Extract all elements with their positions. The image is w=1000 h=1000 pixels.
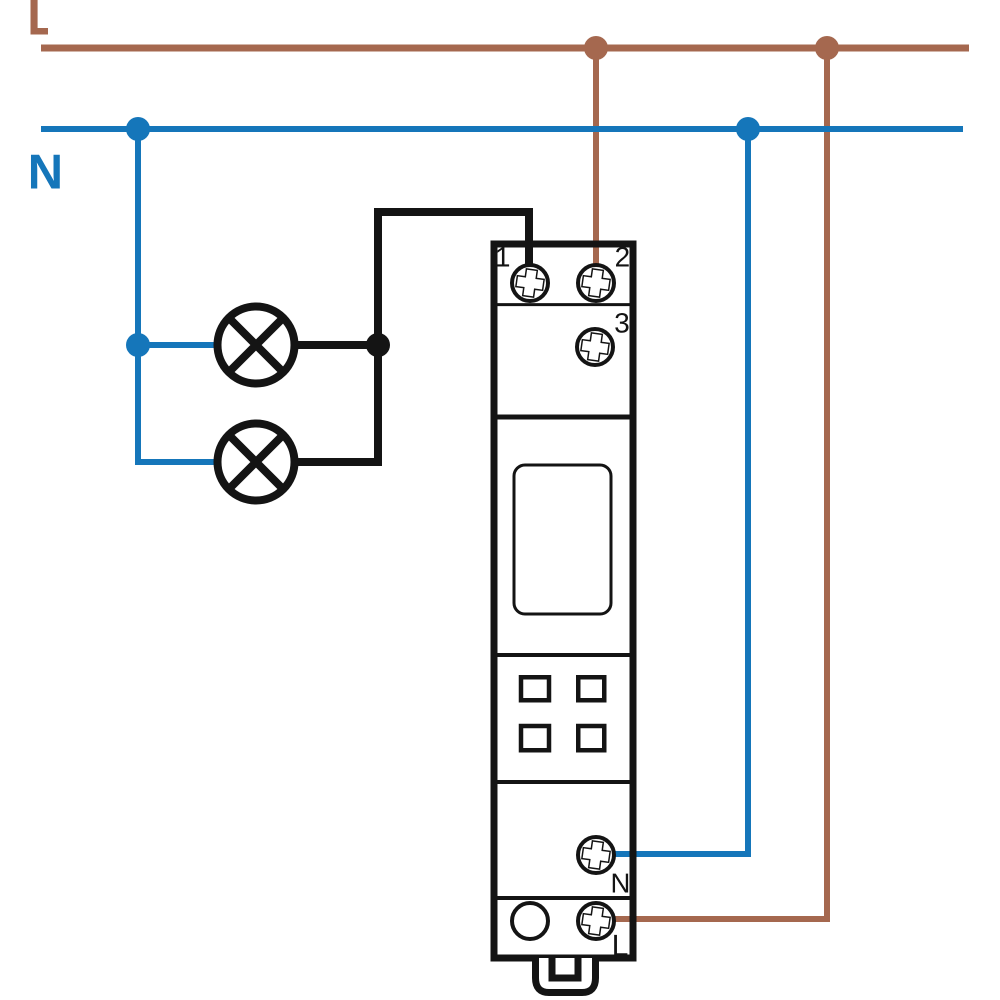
terminal screw 2 [578,265,614,301]
terminal screw 3 [577,329,613,365]
label L (phase) [31,0,49,35]
wire blue from N bus down to lamps [138,129,218,462]
pin label 2 [616,247,629,267]
wire blue from N bus down to terminal N [613,129,748,854]
pin label 3 [615,313,628,333]
terminal screw L [578,903,614,939]
node L drop to terminal L (brown junction dot) [815,36,839,60]
timer module body fill [491,241,637,962]
button bottom-right [578,726,604,750]
node lamp junction (black dot) [366,333,390,357]
button top-left [521,677,549,700]
button bottom-left [521,726,549,750]
display window [514,465,611,614]
terminal screw N [578,837,614,873]
blank hole next to terminal L [512,903,548,939]
button top-right [578,677,604,700]
terminal screw 1 [512,265,548,301]
node N bus left (blue junction dot) [126,117,150,141]
module section divider under display [491,653,636,657]
wire blue to lamp E1 [138,342,218,348]
wire brown drop from L bus to terminal 2 [593,48,599,266]
wire N bus (blue neutral line) [41,126,963,132]
wire black from lamp E1 to junction [294,341,378,349]
pin label N [613,874,628,893]
wire brown from L bus down and left to terminal L [613,48,827,919]
pin label L [614,935,627,956]
timer module body outline [494,244,633,958]
label N (neutral) [31,155,60,189]
pin label 1 [497,247,509,266]
module section divider under terminals 1-2 [491,303,636,306]
wire L bus (brown phase line) [41,45,969,52]
lamp E1 [218,307,295,384]
module section divider above terminal L [491,896,636,900]
module section divider under buttons [491,780,636,784]
node lamp E1 feed (blue junction dot) [126,333,150,357]
DIN clip notch [552,958,578,978]
node L drop to terminal 2 (brown junction dot) [584,36,608,60]
node N bus right (blue junction dot) [736,117,760,141]
wire black from lamp E2 up over to terminal 1 [294,212,529,462]
lamp E2 [218,424,295,501]
module section divider under terminal 3 [491,415,636,420]
DIN rail clip tab [536,958,596,993]
